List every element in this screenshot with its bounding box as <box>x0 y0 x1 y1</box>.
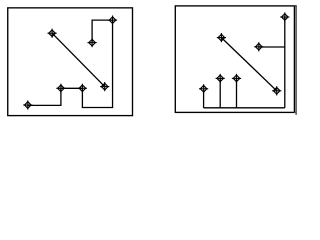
wire: P3 down, left along bottom, up to P6 <box>82 20 112 107</box>
wire: P5-P6 horizontal <box>61 87 83 89</box>
right bounding box <box>175 6 294 113</box>
terminal R2 <box>272 86 281 95</box>
left bounding box <box>8 8 133 116</box>
terminal P3 <box>108 16 117 25</box>
terminal R4 <box>254 42 263 51</box>
wire: R7 vertical down <box>236 78 238 107</box>
wire: P5 down then left to P7 <box>28 88 61 105</box>
wire: R5 vertical down <box>203 89 205 108</box>
terminal R5 <box>199 84 208 93</box>
terminal R1 <box>217 33 226 42</box>
wire: diagonal R1-R2 <box>221 38 276 91</box>
terminal P6 <box>78 84 87 93</box>
terminal R6 <box>216 74 225 83</box>
terminal R7 <box>232 74 241 83</box>
terminal R3 <box>280 12 289 21</box>
right box extra right edge line <box>295 5 297 114</box>
right box bottom border tail <box>294 111 296 113</box>
terminal P4 <box>88 38 97 47</box>
wire: P3 left then down to P4 <box>92 20 112 42</box>
wire: bottom rail <box>204 107 285 109</box>
wire: R6 vertical down <box>219 78 221 107</box>
terminal P2 <box>100 82 109 91</box>
wire: diagonal P1-P2 <box>52 33 105 86</box>
wire: R3 vertical down to bottom rail <box>284 17 286 108</box>
terminal P1 <box>48 29 57 38</box>
right box top border tail <box>294 5 296 7</box>
terminal P7 <box>23 100 32 109</box>
terminal P5 <box>56 84 65 93</box>
wire: R4 horizontal to vertical rail <box>259 46 285 48</box>
